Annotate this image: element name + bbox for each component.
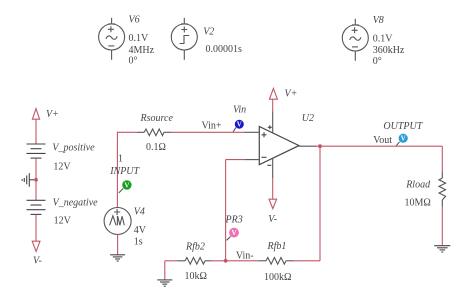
on-page connector arrow V+ (left rail) bbox=[32, 109, 39, 120]
wire V_negative to V- arrow bbox=[35, 214, 37, 241]
svg-text:V: V bbox=[124, 181, 129, 189]
pulse source V2 bbox=[171, 18, 197, 60]
AC source V6 bbox=[99, 18, 125, 60]
junction output bbox=[318, 144, 322, 148]
probe INPUT (green) bbox=[119, 180, 132, 193]
svg-text:V+: V+ bbox=[285, 89, 298, 100]
value labels V8 bbox=[373, 34, 405, 68]
svg-text:V2: V2 bbox=[203, 27, 214, 38]
probe PR3 (pink) bbox=[227, 228, 239, 241]
svg-text:0.1V: 0.1V bbox=[373, 34, 394, 45]
wire output to Rfb1 bbox=[319, 146, 321, 261]
battery V_positive bbox=[27, 144, 46, 158]
junction feedback bbox=[224, 259, 228, 263]
AC source V8 bbox=[342, 19, 368, 61]
ground (rotated, at mid rail) bbox=[22, 173, 34, 187]
svg-text:4MHz: 4MHz bbox=[129, 45, 155, 56]
pin V+ (op-amp top) bbox=[268, 112, 273, 133]
svg-text:1: 1 bbox=[118, 154, 123, 165]
svg-text:V+: V+ bbox=[46, 109, 59, 120]
wire output net bbox=[315, 145, 443, 147]
resistor Rload bbox=[439, 178, 446, 200]
on-page connector arrow V- (op-amp) bbox=[269, 199, 277, 208]
op-amp U2 bbox=[259, 127, 299, 165]
on-page connector arrow V- (left rail) bbox=[32, 241, 40, 251]
svg-text:4V: 4V bbox=[134, 225, 147, 236]
svg-text:V_positive: V_positive bbox=[52, 143, 95, 154]
resistor Rsource bbox=[144, 129, 164, 136]
svg-text:V: V bbox=[231, 229, 236, 237]
wire V+ arrow to V_positive bbox=[35, 119, 37, 144]
svg-text:Vin-: Vin- bbox=[236, 250, 254, 261]
svg-text:Vout: Vout bbox=[373, 135, 392, 146]
resistor Rfb1 bbox=[266, 258, 286, 265]
svg-text:Rsource: Rsource bbox=[140, 113, 174, 124]
output pin of op-amp bbox=[299, 145, 317, 147]
svg-text:12V: 12V bbox=[53, 162, 71, 173]
svg-text:V-: V- bbox=[33, 256, 42, 267]
FM source V4 bbox=[104, 208, 131, 235]
on-page connector arrow V+ (op-amp) bbox=[269, 89, 277, 100]
ground (below V4) bbox=[110, 255, 125, 261]
svg-text:V-: V- bbox=[268, 214, 277, 225]
svg-text:0°: 0° bbox=[129, 56, 138, 67]
wire V4 to ground bbox=[117, 235, 119, 255]
junction node dot bbox=[34, 178, 38, 182]
svg-text:0.1V: 0.1V bbox=[129, 33, 150, 44]
svg-text:OUTPUT: OUTPUT bbox=[383, 121, 423, 132]
svg-text:100kΩ: 100kΩ bbox=[264, 272, 291, 283]
svg-text:0°: 0° bbox=[373, 56, 382, 67]
svg-text:10MΩ: 10MΩ bbox=[405, 198, 431, 209]
svg-text:Rfb1: Rfb1 bbox=[267, 241, 287, 252]
svg-text:0.00001s: 0.00001s bbox=[206, 44, 243, 55]
svg-text:V4: V4 bbox=[134, 207, 145, 218]
svg-text:V_negative: V_negative bbox=[53, 198, 99, 209]
wire inverting input bbox=[226, 160, 260, 261]
probe Vout (teal) bbox=[396, 134, 408, 146]
svg-text:V: V bbox=[401, 135, 406, 143]
svg-text:U2: U2 bbox=[302, 113, 314, 124]
svg-text:10kΩ: 10kΩ bbox=[185, 271, 207, 282]
svg-text:Rload: Rload bbox=[405, 180, 431, 191]
wire feedback net bottom bbox=[165, 260, 320, 262]
svg-text:V: V bbox=[237, 121, 242, 129]
value labels V6 bbox=[129, 33, 155, 67]
svg-text:Rfb2: Rfb2 bbox=[185, 241, 205, 252]
wire op-amp V+ bbox=[272, 99, 274, 111]
svg-text:Vin: Vin bbox=[233, 105, 246, 116]
svg-text:V6: V6 bbox=[129, 15, 140, 26]
resistor Rfb2 bbox=[185, 258, 205, 265]
wire V_positive to V_negative bbox=[35, 158, 37, 200]
pin V- (op-amp bottom) bbox=[267, 158, 272, 178]
wire input net horizontal bbox=[117, 131, 259, 133]
wire input corner to V4 bbox=[116, 132, 118, 207]
svg-text:INPUT: INPUT bbox=[109, 166, 140, 177]
ground (left of Rfb2) bbox=[157, 261, 172, 286]
svg-text:V8: V8 bbox=[373, 15, 384, 26]
svg-text:1s: 1s bbox=[134, 237, 143, 248]
wire op-amp V- bbox=[272, 178, 274, 199]
ground (below Rload) bbox=[434, 246, 450, 252]
svg-text:12V: 12V bbox=[54, 216, 72, 227]
wire output to Rload bbox=[441, 146, 443, 246]
svg-text:PR3: PR3 bbox=[225, 214, 243, 225]
svg-text:0.1Ω: 0.1Ω bbox=[146, 142, 166, 153]
battery V_negative bbox=[27, 200, 46, 214]
svg-text:Vin+: Vin+ bbox=[202, 121, 222, 132]
probe Vin (blue) bbox=[233, 120, 244, 132]
svg-text:360kHz: 360kHz bbox=[373, 45, 405, 56]
